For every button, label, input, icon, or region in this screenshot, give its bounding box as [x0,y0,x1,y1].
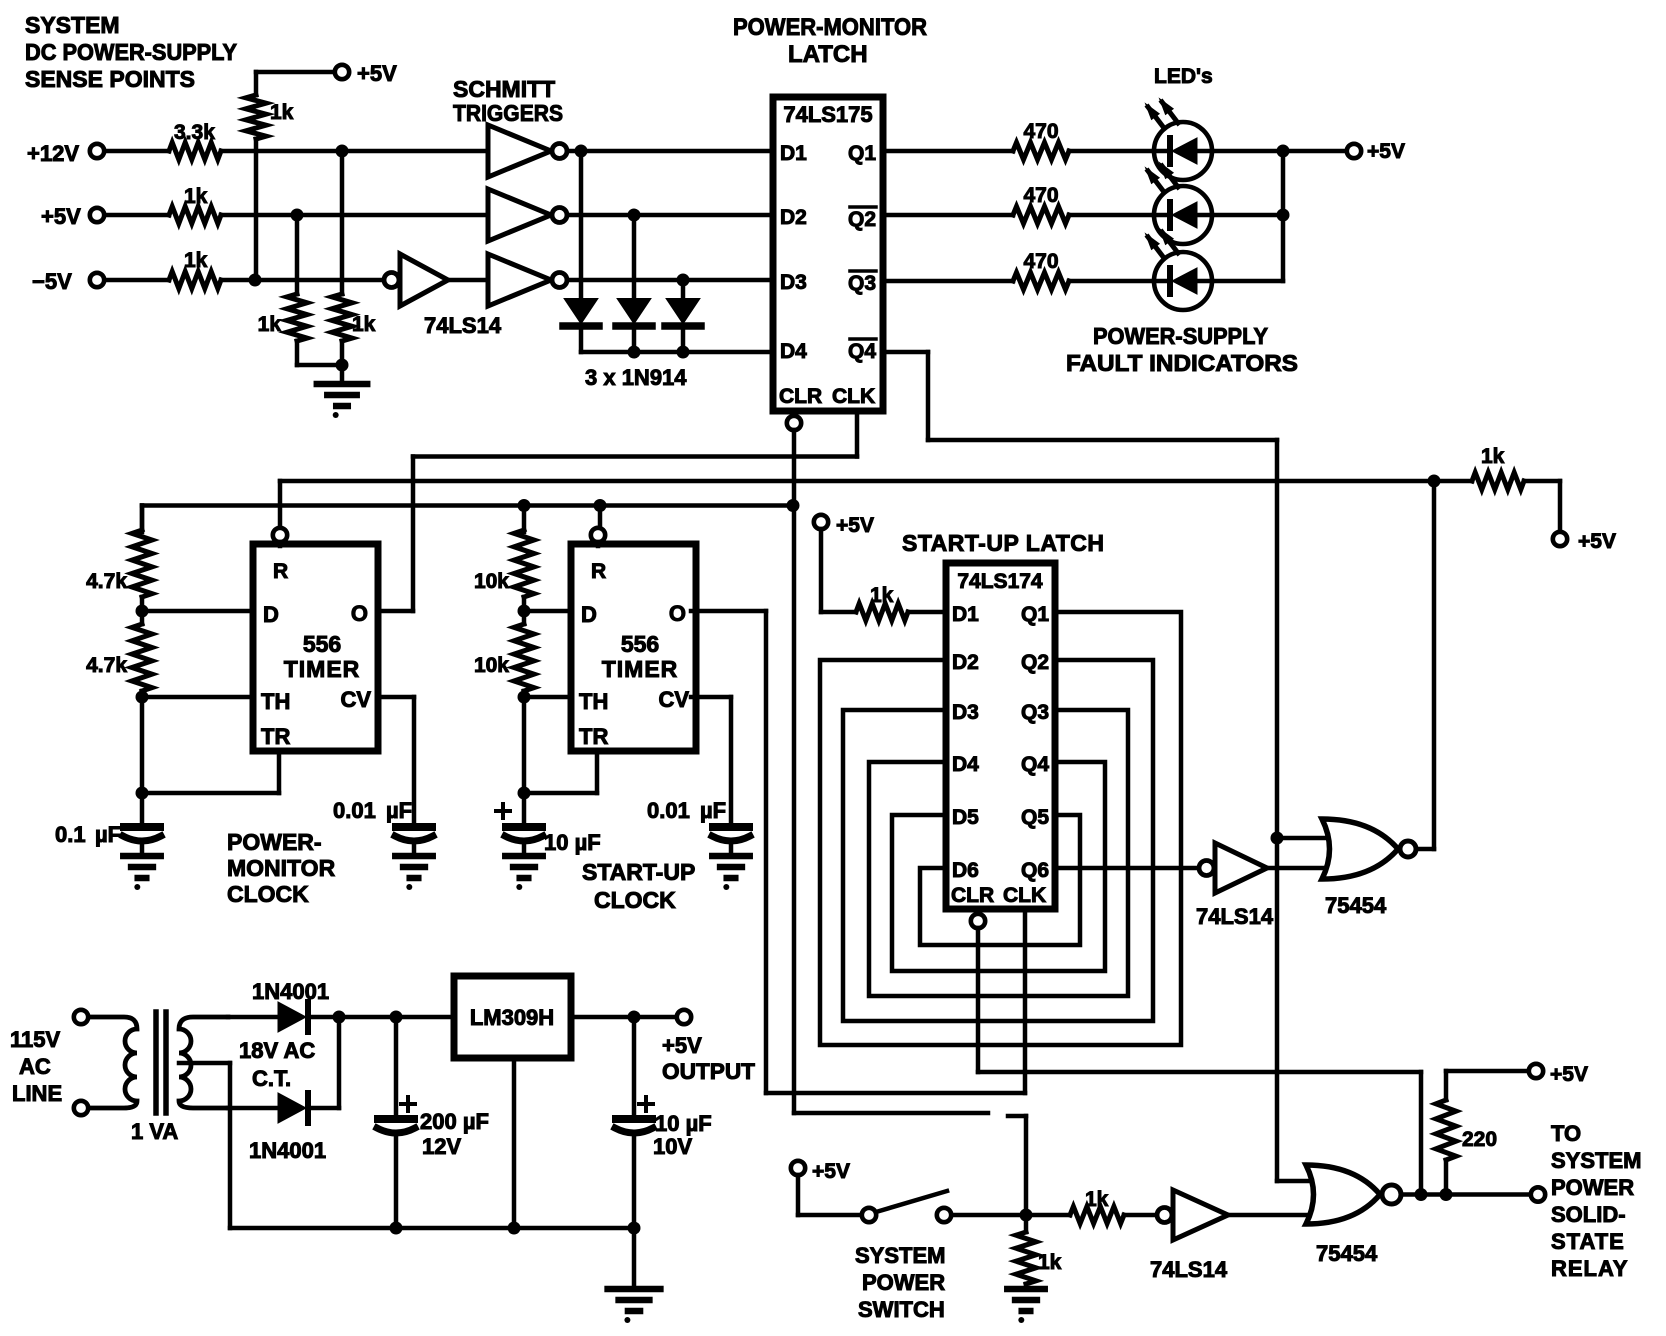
svg-text:CLK: CLK [832,385,875,408]
svg-text:Q4: Q4 [848,340,876,363]
svg-text:O: O [351,601,368,626]
svg-text:MONITOR: MONITOR [227,855,336,881]
svg-text:LATCH: LATCH [788,41,868,68]
svg-text:556: 556 [303,631,341,657]
svg-text:TH: TH [579,689,608,714]
svg-text:TIMER: TIMER [602,656,679,682]
svg-text:SENSE POINTS: SENSE POINTS [25,66,195,92]
svg-text:Q2: Q2 [1021,651,1049,674]
svg-text:200 µF: 200 µF [420,1109,489,1134]
svg-text:+5V: +5V [836,514,874,537]
svg-text:SYSTEM: SYSTEM [855,1243,945,1268]
svg-text:12V: 12V [422,1134,461,1159]
svg-text:R: R [591,560,606,583]
svg-text:75454: 75454 [1325,893,1387,918]
svg-text:CV: CV [340,687,371,712]
svg-text:AC: AC [19,1054,51,1079]
svg-text:−5V: −5V [32,269,72,294]
svg-text:Q3: Q3 [848,272,876,295]
svg-text:556: 556 [621,631,659,657]
svg-text:1k: 1k [184,185,208,208]
svg-text:FAULT INDICATORS: FAULT INDICATORS [1066,350,1298,376]
svg-text:C.T.: C.T. [252,1066,291,1091]
svg-text:18V AC: 18V AC [239,1038,315,1063]
svg-text:Q1: Q1 [1021,603,1049,626]
svg-text:CLOCK: CLOCK [594,887,676,913]
svg-text:470: 470 [1023,120,1058,143]
svg-text:POWER: POWER [1551,1175,1634,1200]
svg-text:74LS14: 74LS14 [1150,1257,1228,1282]
svg-text:D4: D4 [780,340,807,363]
svg-text:D2: D2 [780,206,807,229]
svg-text:0.1: 0.1 [55,822,86,847]
svg-text:LINE: LINE [12,1081,62,1106]
svg-text:470: 470 [1023,184,1058,207]
svg-text:10 µF: 10 µF [655,1111,712,1136]
svg-text:10k: 10k [474,570,509,593]
svg-text:1k: 1k [258,313,282,336]
svg-text:D: D [263,602,279,627]
svg-text:START-UP LATCH: START-UP LATCH [902,530,1105,556]
svg-text:D3: D3 [952,701,979,724]
svg-text:D1: D1 [952,603,979,626]
svg-text:+5V: +5V [1550,1063,1588,1086]
svg-text:LED's: LED's [1154,65,1213,88]
svg-text:D6: D6 [952,859,979,882]
svg-text:74LS14: 74LS14 [424,313,502,338]
svg-text:1N4001: 1N4001 [249,1138,326,1163]
svg-text:TR: TR [261,724,290,749]
svg-text:10k: 10k [474,654,509,677]
svg-text:1k: 1k [352,313,376,336]
svg-text:TH: TH [261,689,290,714]
svg-text:+5V: +5V [1367,140,1405,163]
svg-text:D4: D4 [952,753,979,776]
svg-text:CLOCK: CLOCK [227,881,309,907]
svg-text:DC POWER-SUPPLY: DC POWER-SUPPLY [25,39,237,65]
svg-text:+5V: +5V [1578,530,1616,553]
svg-text:1k: 1k [184,249,208,272]
svg-text:SOLID-: SOLID- [1551,1202,1626,1227]
svg-text:1k: 1k [270,101,294,124]
svg-text:3.3k: 3.3k [174,121,215,144]
svg-text:D5: D5 [952,806,979,829]
svg-text:SYSTEM: SYSTEM [1551,1148,1641,1173]
svg-text:+12V: +12V [27,141,79,166]
svg-text:R: R [273,560,288,583]
svg-text:75454: 75454 [1316,1241,1378,1266]
svg-text:TR: TR [579,724,608,749]
svg-text:µF: µF [95,822,121,847]
svg-text:4.7k: 4.7k [86,654,127,677]
svg-text:Q5: Q5 [1021,806,1049,829]
svg-text:+5V: +5V [41,204,81,229]
svg-text:STATE: STATE [1551,1229,1625,1254]
svg-text:D2: D2 [952,651,979,674]
svg-text:10 µF: 10 µF [544,830,601,855]
svg-text:0.01: 0.01 [333,798,376,823]
svg-text:1k: 1k [1481,445,1505,468]
svg-text:CLR: CLR [779,385,822,408]
svg-text:+5V: +5V [662,1033,702,1058]
svg-text:4.7k: 4.7k [86,570,127,593]
svg-text:470: 470 [1023,250,1058,273]
svg-text:CLR: CLR [951,884,994,907]
svg-text:OUTPUT: OUTPUT [662,1059,756,1084]
svg-text:RELAY: RELAY [1551,1256,1629,1281]
svg-text:POWER-SUPPLY: POWER-SUPPLY [1093,323,1268,349]
svg-text:1k: 1k [1038,1251,1062,1274]
svg-text:1k: 1k [1085,1188,1109,1211]
svg-text:115V: 115V [10,1027,60,1052]
svg-text:LM309H: LM309H [470,1005,554,1030]
svg-text:TIMER: TIMER [284,656,361,682]
svg-text:+5V: +5V [812,1160,850,1183]
svg-text:O: O [669,601,686,626]
svg-text:POWER-: POWER- [227,829,322,855]
svg-text:1k: 1k [870,584,894,607]
svg-text:CV: CV [658,687,689,712]
svg-text:Q6: Q6 [1021,859,1049,882]
svg-text:SWITCH: SWITCH [858,1297,945,1322]
svg-text:D: D [581,602,597,627]
svg-text:CLK: CLK [1003,884,1046,907]
svg-text:POWER: POWER [862,1270,945,1295]
svg-text:Q2: Q2 [848,208,876,231]
svg-text:µF: µF [386,798,412,823]
svg-text:POWER-MONITOR: POWER-MONITOR [733,14,927,41]
svg-text:D1: D1 [780,142,807,165]
svg-text:1N4001: 1N4001 [252,979,329,1004]
svg-text:START-UP: START-UP [582,859,695,885]
svg-text:220: 220 [1462,1128,1497,1151]
svg-text:TRIGGERS: TRIGGERS [453,100,563,126]
svg-text:SCHMITT: SCHMITT [453,76,555,102]
svg-text:Q3: Q3 [1021,701,1049,724]
svg-text:D3: D3 [780,271,807,294]
svg-text:µF: µF [700,798,726,823]
svg-text:10V: 10V [653,1134,692,1159]
svg-text:TO: TO [1551,1121,1581,1146]
svg-text:0.01: 0.01 [647,798,690,823]
svg-text:SYSTEM: SYSTEM [25,12,120,38]
svg-text:74LS14: 74LS14 [1196,904,1274,929]
svg-text:+5V: +5V [357,61,397,86]
svg-text:74LS174: 74LS174 [957,570,1043,593]
svg-text:3 x 1N914: 3 x 1N914 [585,365,687,390]
svg-text:1 VA: 1 VA [131,1119,178,1144]
svg-text:Q1: Q1 [848,142,876,165]
svg-text:74LS175: 74LS175 [783,102,872,127]
svg-text:Q4: Q4 [1021,753,1049,776]
